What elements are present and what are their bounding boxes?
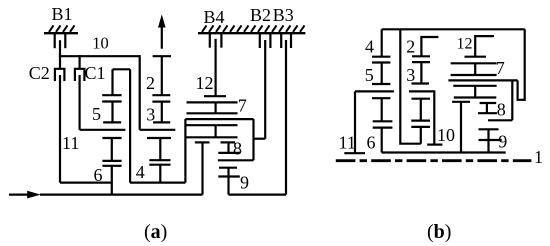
gear 9 T bar bbox=[219, 167, 237, 169]
svg-text:B4: B4 bbox=[204, 7, 225, 27]
gear 3b plate bbox=[412, 61, 430, 63]
brakes hatching bbox=[202, 25, 305, 32]
gear 4 shaft bbox=[159, 138, 161, 160]
shaft 2b lower bbox=[420, 99, 422, 121]
wire C1 to gear 5 bottom bar bbox=[80, 129, 126, 131]
shaft from B1 to clutch C2 outer bbox=[59, 40, 61, 69]
carrier drop right bbox=[252, 119, 254, 160]
svg-text:3: 3 bbox=[146, 105, 155, 125]
gear 2 shaft bbox=[161, 56, 163, 95]
gear 5 bottom T bar bbox=[103, 121, 121, 123]
brake B1 fingers bbox=[55, 34, 66, 48]
wire gear 9 to B3 bbox=[229, 194, 287, 196]
gear 2b lower mid plate bbox=[411, 119, 430, 121]
gear 2 upper plate bbox=[152, 94, 170, 96]
svg-text:(a): (a) bbox=[144, 221, 167, 243]
column 11b vertical bbox=[354, 91, 356, 153]
brake B2 fingers bbox=[260, 34, 271, 48]
brake B4 B2 B3 ground bar bbox=[198, 32, 305, 34]
carrier bar b bbox=[448, 79, 517, 81]
input line after arrow bbox=[40, 194, 203, 196]
gear 6b upper plate bbox=[372, 97, 390, 99]
gear 12b T bar bbox=[465, 56, 487, 58]
svg-text:9: 9 bbox=[240, 173, 249, 193]
gear 7 shaft bbox=[215, 125, 217, 137]
gear 4 top plate bbox=[147, 137, 171, 139]
input riser to gear 8 left bbox=[201, 142, 203, 194]
svg-text:10: 10 bbox=[437, 125, 455, 145]
svg-text:10: 10 bbox=[92, 33, 109, 52]
gear 5 upper plate bbox=[102, 94, 121, 96]
shaft 6b bottom bbox=[381, 128, 383, 153]
gear 11 shaft bbox=[111, 138, 113, 161]
gear 5 shaft top bbox=[111, 69, 113, 95]
svg-text:B3: B3 bbox=[273, 5, 294, 25]
wire bus 10 lower bar (mesh to gear 4) bbox=[140, 129, 176, 131]
gear 4b upper plate bbox=[372, 56, 390, 58]
long bottom wire b bbox=[382, 151, 506, 153]
svg-text:B1: B1 bbox=[52, 4, 73, 24]
gear 9b plate bbox=[479, 139, 502, 141]
gear 4 lower plate bbox=[149, 164, 170, 166]
svg-text:1: 1 bbox=[534, 147, 543, 167]
shaft B4 to gear 12 bbox=[215, 39, 217, 96]
gear 8b T bar bbox=[480, 102, 497, 104]
gear 2 top T bar bbox=[153, 55, 171, 57]
ring plate b1 bbox=[451, 62, 497, 64]
svg-text:9: 9 bbox=[498, 132, 507, 152]
clutch C1 inner shaft bbox=[78, 75, 80, 130]
brake B3 fingers bbox=[281, 34, 291, 48]
brake B1 ground bar bbox=[44, 32, 78, 34]
gear 6 plate bbox=[102, 165, 121, 167]
svg-text:4: 4 bbox=[365, 37, 374, 57]
gear 11 lower plate bbox=[102, 160, 121, 162]
shaft 7b bbox=[474, 86, 476, 98]
ring plate b3 bbox=[453, 85, 496, 87]
shaft 12b mid bbox=[474, 63, 476, 75]
gear 9b shaft bbox=[487, 129, 489, 140]
gear 11 top plate bbox=[102, 137, 121, 139]
shaft 6b bbox=[381, 98, 383, 121]
ring plate upper 1 bbox=[187, 101, 238, 103]
gear 9 shaft bottom bbox=[227, 177, 229, 195]
gear 2b lower bottom plate bbox=[411, 126, 430, 128]
svg-text:B2: B2 bbox=[250, 5, 271, 25]
gear 8b shaft bbox=[486, 103, 488, 113]
gear 6 shaft to input line bbox=[111, 166, 113, 195]
gear 8 mesh bar to carrier bbox=[218, 159, 254, 161]
gear 6b lower plate bbox=[373, 126, 393, 128]
ring plate b4 bbox=[454, 96, 497, 98]
mesh bar 11b bbox=[355, 90, 394, 92]
gear 3 plate bbox=[152, 100, 170, 102]
wire C2 to gear 6 shaft bbox=[60, 182, 112, 184]
gear 8 left T bar bbox=[195, 141, 210, 143]
gear 5b plate bbox=[372, 61, 390, 63]
column 11b bottom T bar bbox=[344, 152, 365, 154]
brake B4 fingers bbox=[210, 34, 222, 48]
clutch C2 outer cup bbox=[55, 69, 65, 81]
gear 12 T bar bbox=[204, 95, 226, 97]
gear 3 bottom T bar bbox=[153, 121, 170, 123]
svg-text:7: 7 bbox=[238, 95, 247, 115]
mesh bar riser to carrier bbox=[511, 80, 513, 120]
carrier frame left vertical bbox=[129, 69, 131, 182]
svg-text:2: 2 bbox=[406, 37, 415, 57]
gear 2b upper plate bbox=[412, 55, 430, 57]
gear 3 shaft bbox=[161, 102, 163, 123]
figure b top link bar bbox=[382, 28, 525, 30]
wire bus 10 horizontal bbox=[59, 55, 140, 57]
svg-text:6: 6 bbox=[367, 133, 376, 153]
gear 12 shaft mid bbox=[215, 102, 217, 113]
right jog carrier to top bar bbox=[518, 29, 525, 100]
ring plate b2 bbox=[451, 74, 497, 76]
gear 5 lower plate bbox=[102, 100, 121, 102]
input arrow head bbox=[27, 191, 41, 199]
shaft 3b bbox=[420, 62, 422, 83]
svg-text:11: 11 bbox=[62, 133, 79, 153]
carrier bar of gearset 7 bbox=[185, 118, 253, 120]
wire bus 10 drop bbox=[139, 55, 141, 130]
svg-text:3: 3 bbox=[406, 65, 415, 85]
svg-text:5: 5 bbox=[92, 104, 101, 124]
shaft to frame bottom bbox=[420, 127, 422, 144]
gear 9b shaft bottom bbox=[487, 140, 489, 153]
gear 5 shaft mid bbox=[111, 102, 113, 123]
gear 9 shaft bbox=[227, 168, 229, 177]
gear 12b antenna bar bbox=[475, 36, 494, 57]
wire B2 to carrier drop bbox=[254, 138, 266, 140]
shaft 5b bbox=[381, 63, 383, 85]
gear 9 plate bbox=[218, 175, 240, 177]
clutch C1 drop from bus bbox=[78, 55, 80, 69]
gear 3b bottom T bar bbox=[412, 82, 430, 84]
gear 2b antenna bar bbox=[421, 37, 438, 56]
ring plate upper 2 bbox=[187, 112, 238, 114]
gear 9b T bar bbox=[479, 128, 499, 130]
svg-text:11: 11 bbox=[339, 133, 356, 153]
centerline 1 dash dot bbox=[336, 159, 532, 162]
svg-text:C2: C2 bbox=[29, 63, 50, 83]
output arrow head bbox=[158, 14, 166, 27]
carrier frame bottom bbox=[130, 182, 185, 184]
gear 2b lower upper plate bbox=[412, 98, 431, 100]
svg-text:6: 6 bbox=[94, 165, 103, 185]
svg-text:12: 12 bbox=[457, 35, 473, 52]
gear 4 shaft bottom bbox=[159, 165, 161, 183]
clutch C2 inner shaft bbox=[59, 75, 61, 183]
bottom left column T bar bbox=[452, 101, 470, 103]
gear 8 plate bbox=[218, 152, 239, 154]
svg-text:C1: C1 bbox=[85, 63, 106, 83]
clutch C1 outer cup bbox=[75, 69, 85, 81]
svg-text:2: 2 bbox=[146, 73, 155, 93]
node 4 column top drop bbox=[381, 29, 383, 56]
svg-text:7: 7 bbox=[496, 58, 505, 78]
svg-text:4: 4 bbox=[136, 162, 145, 182]
ring plate lower 1 bbox=[187, 124, 238, 126]
gear 8 right T bar bbox=[221, 141, 236, 143]
gear 8b plate bbox=[478, 112, 497, 114]
column 10b drop bbox=[433, 91, 435, 144]
svg-text:(b): (b) bbox=[427, 221, 451, 243]
output arrow shaft bbox=[161, 26, 163, 49]
frame around column 2b left bbox=[400, 29, 421, 143]
bridge bar over gear 5 bbox=[113, 68, 131, 70]
shaft B2 down bbox=[264, 40, 266, 139]
mesh bar 10b bbox=[409, 90, 435, 92]
brake B1 hatching bbox=[49, 25, 75, 32]
gear 5b lower plate bbox=[372, 83, 390, 85]
svg-text:5: 5 bbox=[365, 65, 374, 85]
gear 4 mid plate bbox=[149, 159, 170, 161]
bottom left column shaft bbox=[460, 102, 462, 153]
column 10b bottom T bar bbox=[427, 144, 442, 146]
gear 6b mid plate bbox=[373, 120, 393, 122]
input shaft line bbox=[9, 194, 28, 196]
svg-text:8: 8 bbox=[233, 139, 242, 159]
ring plate lower 2 bbox=[187, 136, 238, 138]
carrier frame right vertical bbox=[184, 119, 186, 183]
gear 8b mesh bar bbox=[488, 119, 512, 121]
svg-text:12: 12 bbox=[196, 73, 214, 93]
shaft B3 down bbox=[285, 40, 287, 195]
svg-text:8: 8 bbox=[497, 100, 506, 120]
gear 8 shaft bbox=[227, 142, 229, 153]
